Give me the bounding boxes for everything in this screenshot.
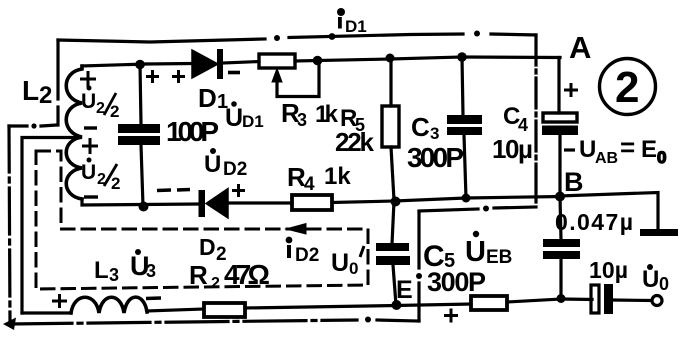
svg-text:U: U [204,151,221,178]
label UEB [465,231,512,268]
wire feedback dash-dot left vertical [9,126,10,323]
svg-text:D: D [199,234,216,260]
wire feedback dash-dot horizontal jog [419,206,536,212]
svg-text:3: 3 [297,110,307,130]
wire feedback dash-dot bottom horizontal [3,317,419,331]
diode D1 [146,49,223,79]
svg-text:U: U [331,249,349,277]
svg-text:300P: 300P [407,142,464,173]
svg-text:0: 0 [657,148,666,167]
wire resistor to junction [507,299,561,302]
svg-text:4: 4 [304,174,315,195]
svg-text:U: U [225,104,243,132]
svg-text:U: U [642,266,659,293]
junction dot R3 output [313,56,323,66]
wire feedback dash-dot corner to left edge [9,123,57,128]
wire D1 to R3 [224,62,259,64]
label U2/2 upper [81,86,119,122]
svg-text:D1: D1 [242,112,264,131]
label L3 [94,257,119,285]
label R2 47ohm [189,259,270,292]
junction dot 0.047u bottom [557,294,566,303]
capacitor 0.047u branch lower [559,259,562,299]
wire feedback left vertical solid [56,40,59,125]
capacitor 100P branch wire upper [140,64,141,124]
svg-text:47Ω: 47Ω [224,259,270,290]
svg-text:U: U [81,161,96,184]
svg-text:2: 2 [211,275,220,292]
label plus pair after junction [146,70,185,83]
wire top rail [82,64,146,66]
capacitor C3 [447,57,482,198]
wire top feedback dash-dot horizontal ID1 [58,31,536,43]
capacitor 100P [118,124,160,145]
junction dot mid rail left [391,197,401,207]
svg-text:E: E [641,136,657,163]
svg-text:A: A [569,30,591,65]
svg-text:1k: 1k [324,163,351,190]
label minus pair before D2 [157,190,190,191]
dashed current loop ID2 [36,151,368,289]
svg-text:C: C [411,112,430,142]
label U0 output [642,264,669,294]
svg-text:U: U [579,136,596,163]
svg-text:E: E [396,276,413,304]
svg-text:U: U [81,90,96,113]
wire 10u cap to output terminal [613,298,651,302]
label D1 [198,83,228,113]
label UD2 [204,148,247,180]
svg-text:D1: D1 [345,17,367,36]
label plus L3 [52,294,67,308]
capacitor C5 [376,243,410,265]
label plus bottom resistor [444,309,458,323]
wire L2 center tap [22,138,80,314]
label U2/2 lower [81,158,120,194]
wire L3 to R2 [147,309,204,311]
capacitor 10u output electrolytic [591,284,613,314]
svg-text:3: 3 [146,261,156,281]
svg-text:L: L [22,75,39,106]
wire R3 to R5 junction [295,59,391,61]
svg-text:D2: D2 [223,159,247,180]
svg-text:22k: 22k [335,127,375,157]
label C5 [423,240,455,273]
inductor L2 [66,66,82,199]
wire feedback dash-dot right riser [416,212,422,321]
capacitor C5 branch lower [393,265,396,305]
label U0 prime [331,246,364,278]
wire L2 bottom to D2 [82,199,199,205]
arrow on ID2 loop [286,224,306,235]
svg-text:300P: 300P [427,267,486,297]
wire mid rail [395,197,560,202]
svg-text:EB: EB [486,247,512,268]
capacitor 0.047u branch upper [560,197,561,240]
label D2 [199,234,227,265]
svg-text:0: 0 [349,259,358,278]
junction dot node B [555,192,565,202]
terminal output circle [652,296,662,306]
terminal bar right [640,229,678,236]
label minus L3 [146,296,161,300]
svg-text:10µ: 10µ [492,134,533,164]
label R5 [340,105,365,135]
figure number circle 2 [600,59,656,115]
wire C3 junction to node A corner [462,55,560,59]
label minus upper winding [84,126,97,129]
wire C4 to node B [558,135,561,196]
svg-text:=: = [620,132,635,162]
label ID2 current [286,237,320,266]
svg-text:2: 2 [110,102,119,121]
wire D2 to R4 [228,201,292,204]
svg-text:0.047µ: 0.047µ [555,209,633,235]
svg-text:AB: AB [595,150,618,167]
svg-text:2: 2 [615,63,639,112]
svg-text:10µ: 10µ [589,257,628,283]
resistor R5 [382,59,399,200]
wire R4 to mid rail [332,201,395,203]
resistor R4 [292,195,332,210]
svg-text:D: D [198,83,217,113]
resistor unlabeled bottom [471,296,507,310]
label R3 1k [281,98,339,130]
svg-text:0: 0 [659,274,669,294]
capacitor 100P branch wire lower [141,145,143,206]
label L2 [22,75,52,109]
wire junction to 10u cap [561,297,592,301]
label plus C4 [564,83,578,97]
svg-text:B: B [564,167,584,197]
junction dot R5 top [386,54,395,63]
svg-text:R: R [189,260,208,290]
junction dot C3 top [457,52,467,62]
label C3 [411,112,439,143]
capacitor 0.047u [543,239,580,259]
svg-text:L: L [94,257,109,284]
resistor R2 [204,303,245,317]
junction dot C3 bottom [462,194,471,203]
label plus lower winding [82,138,98,154]
junction dot node E [392,300,402,310]
svg-text:3: 3 [109,265,119,285]
svg-text:3: 3 [430,124,439,143]
svg-text:2: 2 [39,82,52,109]
diode D2 [199,189,229,219]
wire R2 to node E [245,306,396,309]
junction dot 100P top [135,60,145,70]
label minus after D1 [228,71,240,75]
svg-text:2: 2 [111,174,120,193]
svg-text:U: U [465,236,486,268]
wire feedback dash-dot right vertical [534,35,537,207]
inductor L3 [71,297,147,313]
junction dot 100P bottom [139,202,149,212]
label U3 [130,249,156,281]
potentiometer R3 [259,54,319,97]
capacitor C5 branch upper [392,201,394,244]
svg-text:D2: D2 [295,245,319,266]
wire node A drop [557,58,560,114]
label UAB = E0 [564,132,666,167]
wire node B to right terminal [560,193,658,229]
svg-text:100P: 100P [166,116,219,147]
svg-text:4: 4 [518,115,528,135]
label plus after D2 [232,184,245,197]
label UD1 [225,101,264,132]
label plus upper winding [80,71,96,87]
label ID1 current [337,8,367,36]
capacitor C4 electrolytic [542,113,578,135]
wire node E to resistor [396,304,471,306]
wire bottom left riser [22,311,71,314]
wire R5 junction to C3 junction [391,57,462,59]
label minus lower winding [84,195,98,198]
svg-text:1k: 1k [315,101,339,128]
label R4 1k [287,162,351,195]
label C4 [503,103,528,135]
